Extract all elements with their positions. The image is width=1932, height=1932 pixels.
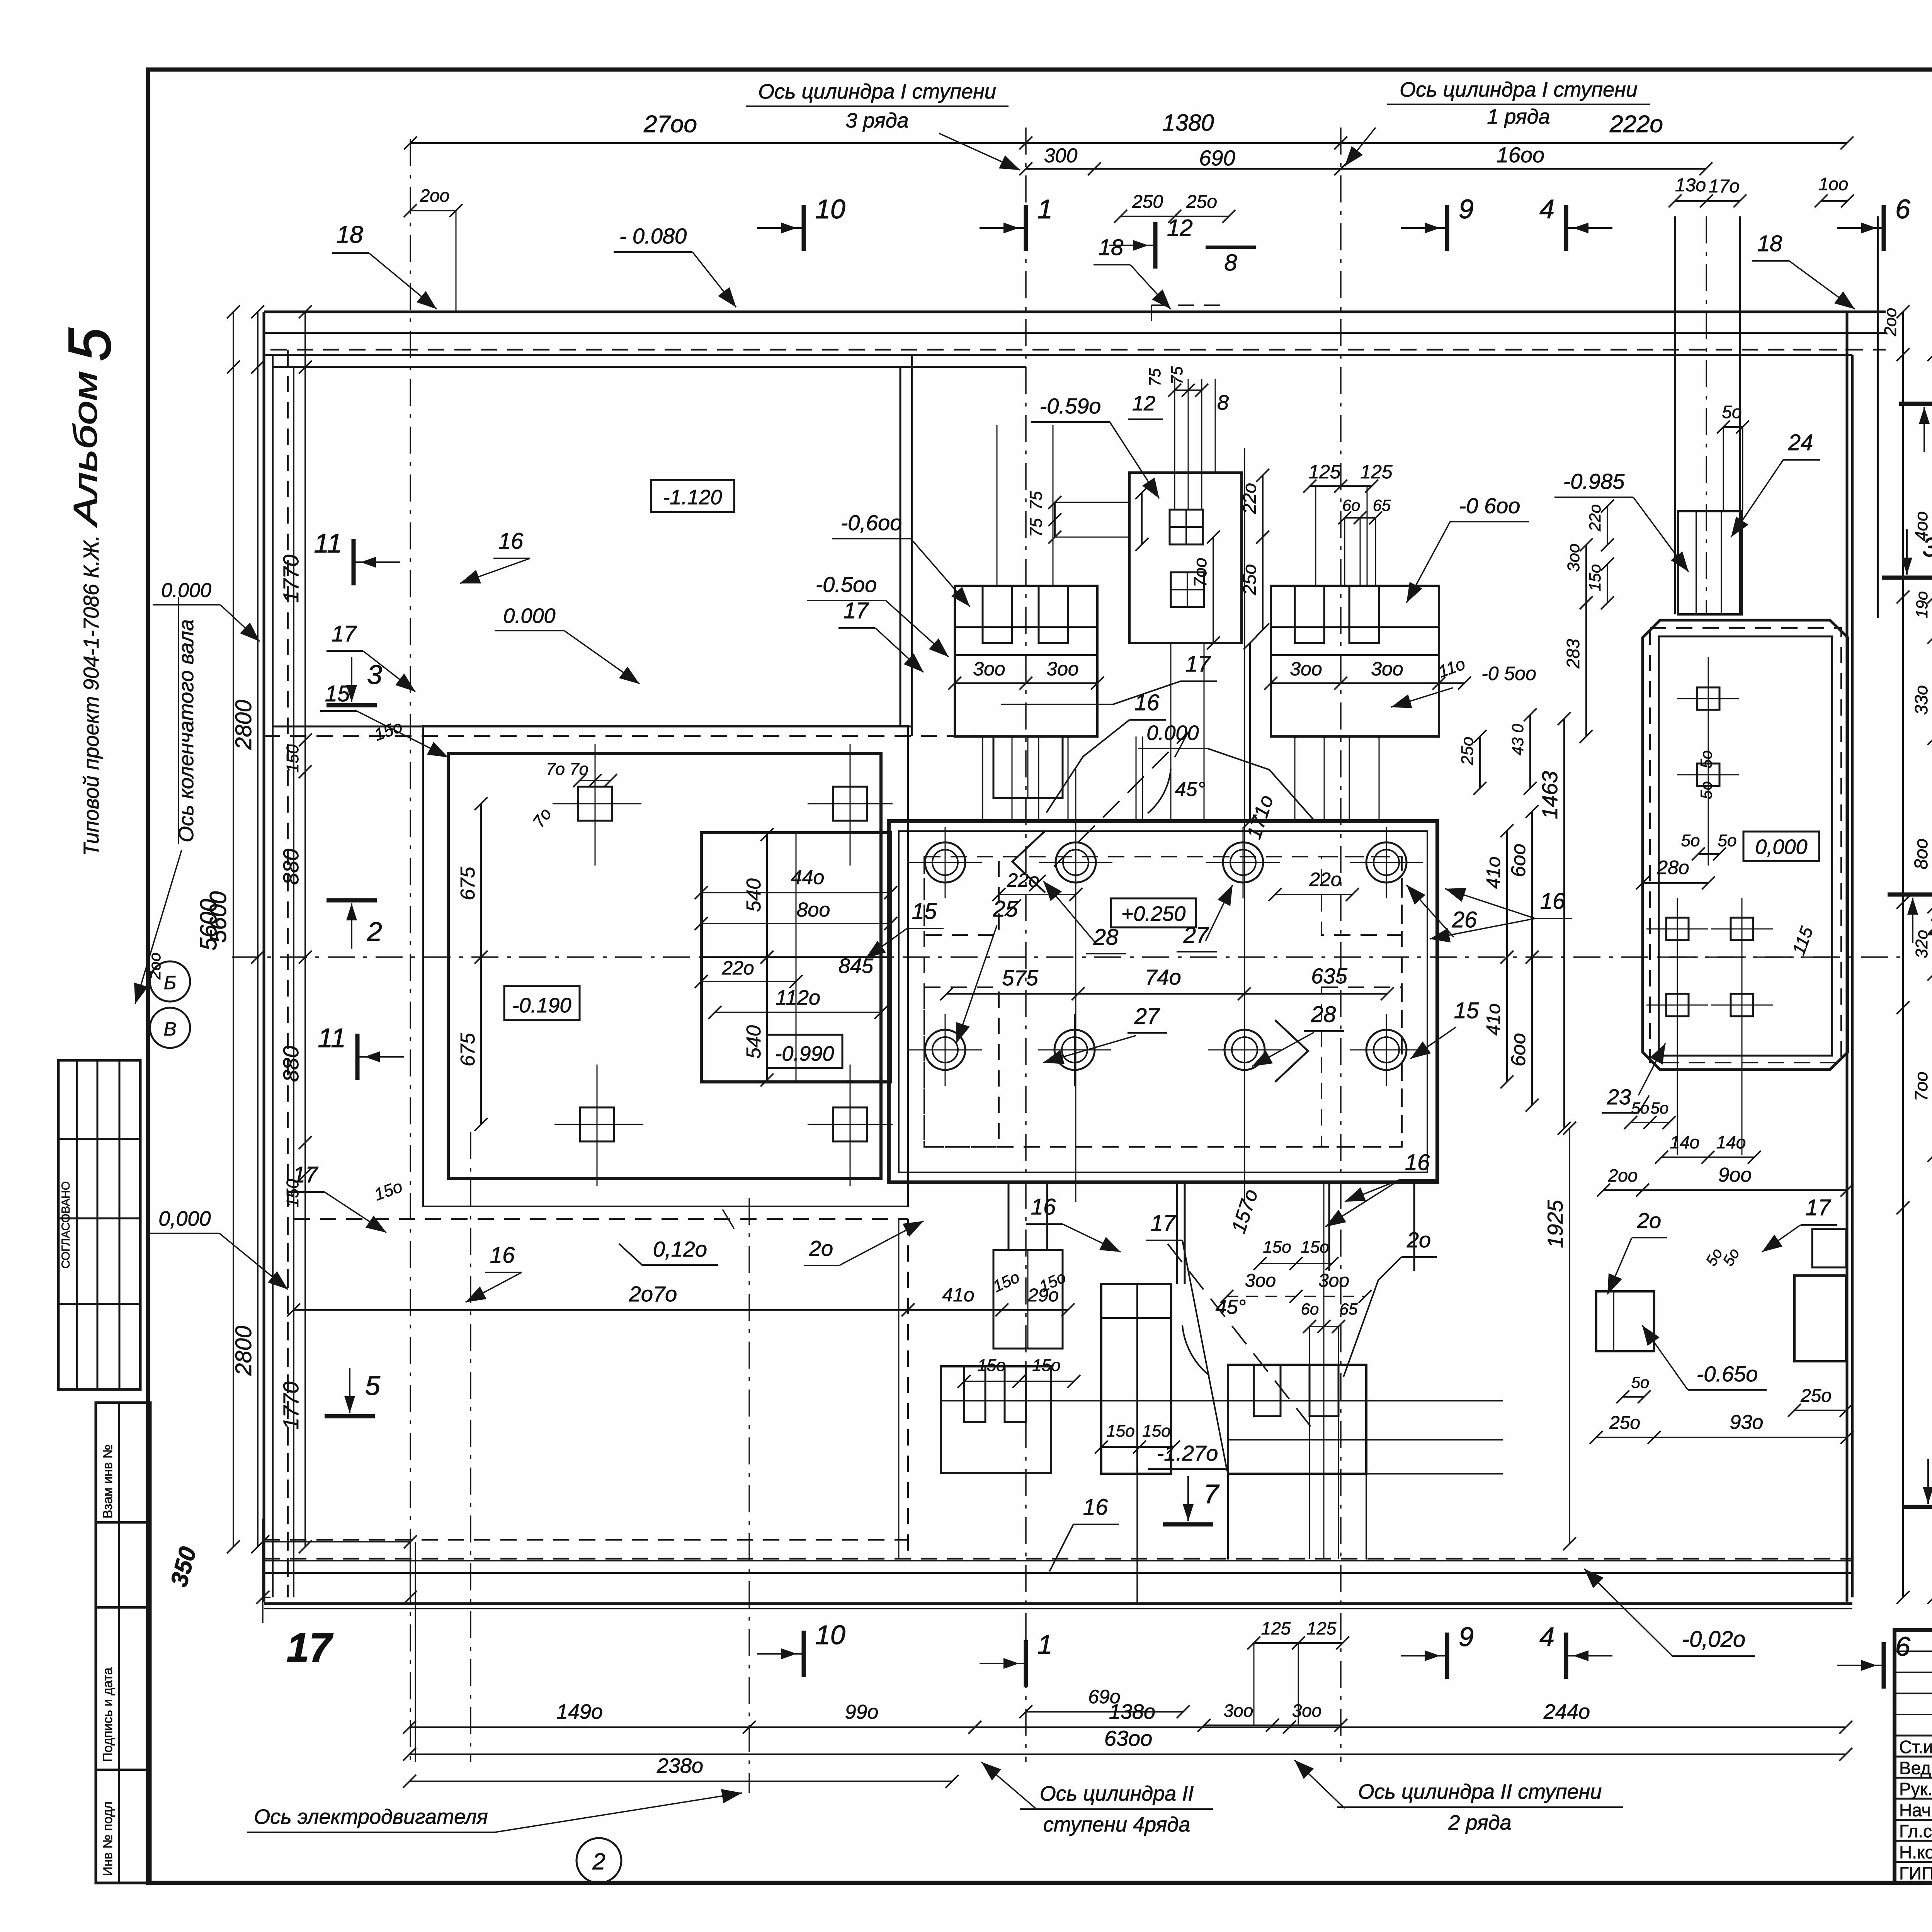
svg-text:Ось цилиндра II ступени: Ось цилиндра II ступени (1358, 1780, 1602, 1803)
left margin table Согласовано (58, 1060, 140, 1389)
svg-text:2о: 2о (1406, 1228, 1431, 1252)
bottom dim 690 (1026, 1711, 1183, 1713)
left margin stamp column (Взам инв № / Подпись и дата / Инв № подл) (96, 1403, 150, 1883)
svg-text:125: 125 (1307, 1618, 1337, 1638)
tall pedestal B (1101, 1284, 1171, 1474)
svg-text:-0.990: -0.990 (775, 1042, 834, 1065)
anchor square A1 (578, 787, 612, 821)
svg-text:15о: 15о (1142, 1422, 1170, 1440)
svg-text:12: 12 (1167, 215, 1193, 241)
slab diagonal 45 arrow upper (1005, 732, 1188, 916)
right top pillar verticals (1674, 216, 1676, 614)
svg-text:16: 16 (1083, 1495, 1108, 1520)
svg-text:15о: 15о (977, 1356, 1005, 1375)
svg-text:-0.65о: -0.65о (1697, 1362, 1758, 1386)
svg-text:25о: 25о (1458, 737, 1477, 765)
bottom-left room right dashed wall (907, 1219, 909, 1560)
svg-text:880: 880 (279, 1046, 303, 1082)
svg-text:28: 28 (1093, 925, 1119, 950)
dim 2070 410 290 (294, 1309, 908, 1311)
svg-text:16оо: 16оо (1497, 143, 1545, 167)
svg-text:10: 10 (815, 1620, 845, 1650)
svg-text:Ось цилиндра I ступени: Ось цилиндра I ступени (1400, 78, 1638, 101)
plan right wall (1846, 312, 1849, 1602)
anchor square A3 (580, 1107, 614, 1141)
svg-text:1463: 1463 (1537, 771, 1562, 819)
small pedestal rect below left comb (993, 736, 1063, 798)
center pedestal dims 75 75 12 8 (1175, 389, 1202, 391)
slab bolt circles row1 (925, 842, 965, 883)
svg-text:16: 16 (498, 529, 524, 554)
svg-text:2800: 2800 (231, 700, 256, 750)
svg-text:12: 12 (1132, 392, 1155, 415)
svg-text:+0.250: +0.250 (1121, 902, 1186, 925)
svg-text:16: 16 (1134, 690, 1160, 715)
svg-text:18: 18 (1757, 231, 1782, 256)
svg-text:22о: 22о (1007, 869, 1039, 891)
svg-text:0.000: 0.000 (1146, 721, 1199, 745)
svg-text:23: 23 (1607, 1085, 1631, 1109)
right comb legs down (1294, 736, 1296, 821)
bolt axes central slab (1075, 769, 1077, 1202)
svg-text:22о: 22о (1240, 483, 1260, 514)
wall stubs below slab left (1008, 1182, 1010, 1250)
svg-text:15о: 15о (1106, 1422, 1134, 1440)
svg-text:63оо: 63оо (1104, 1726, 1153, 1750)
svg-text:27оо: 27оо (643, 111, 697, 138)
axis line vertical x=1062 (410, 139, 411, 1762)
left dim chain 1770 150 880 880 150 1770 (304, 312, 306, 1547)
svg-text:Типовой проект 904-1-7086 К.: Типовой проект 904-1-7086 К.Ж. (79, 535, 103, 856)
svg-text:11: 11 (314, 528, 342, 558)
svg-text:17: 17 (287, 1625, 333, 1670)
dim 220 250 rotated right of center pedestal (1262, 475, 1264, 537)
svg-text:ГИП: ГИП (1899, 1863, 1932, 1883)
wall stubs below slab right (1328, 1182, 1330, 1271)
svg-text:25: 25 (993, 896, 1018, 922)
bottom-left wall step lines (293, 1219, 294, 1597)
svg-text:22о: 22о (721, 957, 754, 979)
svg-text:-1.120: -1.120 (663, 486, 722, 509)
axis crankshaft horizontal y=2477 (232, 956, 1905, 958)
svg-text:1оо: 1оо (1819, 174, 1849, 194)
svg-text:7оо: 7оо (1911, 1071, 1931, 1101)
svg-text:-0,02о: -0,02о (1682, 1627, 1745, 1652)
svg-text:9оо: 9оо (1718, 1164, 1752, 1186)
pillar dims 50 24 (1723, 426, 1743, 428)
svg-text:2800: 2800 (231, 1326, 256, 1376)
axis dash-dot x=1218 bottom-left (470, 1132, 471, 1762)
svg-text:3оо: 3оо (1318, 1270, 1349, 1291)
svg-text:65: 65 (1340, 1300, 1358, 1318)
svg-text:Подпись и дата: Подпись и дата (100, 1667, 115, 1762)
svg-text:6: 6 (1895, 194, 1910, 224)
svg-text:13о: 13о (1675, 175, 1706, 196)
svg-text:45°: 45° (1175, 778, 1206, 801)
svg-text:5о: 5о (1681, 831, 1700, 850)
svg-text:-0,6оо: -0,6оо (841, 510, 902, 535)
plan left wall (263, 312, 265, 1602)
svg-text:2: 2 (1928, 911, 1932, 941)
svg-text:5о: 5о (1631, 1099, 1650, 1117)
svg-text:2: 2 (592, 1849, 605, 1874)
svg-text:17: 17 (844, 598, 869, 623)
svg-text:25о: 25о (1609, 1413, 1640, 1433)
circled 2 bottom (577, 1838, 621, 1883)
left comb bolt verticals up and legs down (997, 425, 998, 586)
svg-text:0,000: 0,000 (1755, 835, 1807, 859)
svg-text:5: 5 (56, 328, 123, 361)
svg-text:1: 1 (1037, 194, 1053, 224)
left dim chain 2800 x2 (257, 312, 259, 1547)
bottom comb pedestal A (941, 1366, 1051, 1473)
svg-text:19о: 19о (1913, 591, 1931, 618)
right block bottom dims 50 50 140 140 900 200 (1631, 1122, 1669, 1123)
right dim chain x=4925 (1902, 312, 1904, 1597)
center pedestal pocket crosses (1185, 510, 1187, 544)
svg-text:575: 575 (1002, 966, 1038, 990)
svg-text:-0.985: -0.985 (1563, 469, 1625, 493)
right block inner (1659, 636, 1832, 1056)
dims 150 150 below B (1101, 1446, 1173, 1448)
svg-text:Б: Б (164, 972, 177, 993)
svg-text:2оо: 2оо (146, 952, 164, 980)
svg-text:15: 15 (1454, 998, 1479, 1023)
svg-text:43 0: 43 0 (1509, 724, 1527, 755)
bottom dim chain 1490 990 1380 2440 (410, 1726, 975, 1728)
svg-text:15: 15 (325, 681, 350, 706)
right block squares (1697, 687, 1719, 710)
svg-text:2о: 2о (809, 1236, 833, 1260)
room dims 675 540 70 70 440 800 220 845 1120 (480, 804, 482, 957)
svg-text:845: 845 (838, 954, 874, 978)
svg-text:28о: 28о (1656, 857, 1689, 878)
left dim chain 5600 (233, 312, 234, 1547)
svg-text:244о: 244о (1543, 1700, 1590, 1723)
svg-text:65: 65 (1373, 496, 1391, 514)
svg-text:17: 17 (1185, 651, 1211, 677)
top dim chain 300 690 1600 (1026, 168, 1341, 170)
svg-text:Н.контр: Н.контр (1899, 1842, 1932, 1862)
svg-text:5о: 5о (1631, 1373, 1650, 1391)
svg-text:22о: 22о (1309, 869, 1341, 890)
svg-text:2о7о: 2о7о (629, 1282, 677, 1306)
svg-text:Гл.спец: Гл.спец (1899, 1821, 1932, 1841)
svg-text:Инв № подл: Инв № подл (100, 1801, 115, 1876)
svg-text:250: 250 (1132, 192, 1163, 212)
right top pillar block -0.985 (1678, 511, 1742, 614)
dims 150 150 above comb A (964, 1381, 1074, 1382)
svg-text:18: 18 (337, 221, 363, 248)
svg-text:15: 15 (912, 899, 937, 924)
svg-text:690: 690 (1199, 146, 1235, 170)
svg-text:3: 3 (367, 660, 382, 690)
svg-text:112о: 112о (776, 986, 820, 1009)
svg-text:7: 7 (1204, 1479, 1220, 1509)
svg-text:635: 635 (1311, 964, 1347, 988)
bottom-left room dashed top 0.120 line (294, 1218, 908, 1220)
slab bolt circles row2 (925, 1030, 965, 1070)
svg-text:5: 5 (365, 1371, 381, 1401)
lower-left room outer (423, 726, 908, 1206)
slab dims 575 740 635 (947, 993, 1387, 995)
svg-text:3: 3 (1922, 532, 1932, 562)
svg-text:41о: 41о (942, 1284, 974, 1306)
svg-text:27: 27 (1134, 1004, 1160, 1029)
svg-text:1380: 1380 (1162, 110, 1214, 136)
svg-text:125: 125 (1360, 461, 1393, 483)
svg-text:16: 16 (490, 1243, 515, 1268)
svg-text:880: 880 (279, 849, 303, 885)
central slab inner line (899, 831, 1427, 1172)
svg-text:16: 16 (1031, 1194, 1056, 1219)
svg-text:Нач.отд: Нач.отд (1899, 1800, 1932, 1820)
svg-text:15о: 15о (1301, 1238, 1329, 1257)
svg-text:93о: 93о (1730, 1411, 1764, 1434)
svg-text:300: 300 (1044, 145, 1078, 167)
bottom small rect left (993, 1250, 1063, 1349)
top dim 200 top-left (410, 210, 456, 211)
svg-text:Ст.инж: Ст.инж (1899, 1737, 1932, 1757)
svg-text:222о: 222о (1609, 111, 1663, 138)
svg-text:675: 675 (457, 1032, 479, 1066)
svg-text:99о: 99о (845, 1701, 879, 1723)
right bottom step shapes (1812, 1229, 1846, 1267)
lower-left room inner bold (448, 753, 881, 1179)
svg-text:74о: 74о (1145, 965, 1181, 989)
svg-text:4: 4 (1539, 194, 1554, 224)
svg-text:-0.190: -0.190 (512, 994, 571, 1017)
svg-text:2: 2 (367, 917, 382, 947)
left comb pedestal (955, 586, 1097, 736)
top dim 130 170 100 (1675, 200, 1740, 202)
svg-text:1770: 1770 (279, 1381, 303, 1430)
axis line vertical 3-ряд x=2655 (1025, 128, 1027, 1762)
slab right dims 600 410 410 600 1463 1925 (1506, 831, 1508, 957)
bottom right dims 250 930 250 50 (1794, 1410, 1846, 1411)
bolt lines comb C (1309, 1327, 1310, 1559)
svg-text:3оо: 3оо (1564, 544, 1583, 572)
slab diamond marks (1012, 831, 1045, 893)
svg-text:Ось цилиндра I ступени: Ось цилиндра I ступени (758, 80, 996, 103)
svg-text:44о: 44о (791, 866, 825, 889)
right comb pedestal (1271, 586, 1439, 736)
svg-text:-0 5оо: -0 5оо (1481, 663, 1536, 684)
svg-text:ступени 4ряда: ступени 4ряда (1043, 1813, 1190, 1836)
svg-text:Рук.гр: Рук.гр (1899, 1779, 1932, 1799)
svg-text:-0 6оо: -0 6оо (1459, 493, 1520, 518)
svg-text:25о: 25о (1800, 1386, 1832, 1406)
svg-text:5о: 5о (1697, 781, 1715, 799)
svg-text:1925: 1925 (1543, 1200, 1567, 1248)
machine inner lines (701, 956, 891, 958)
svg-text:75: 75 (1168, 366, 1186, 384)
svg-text:5о: 5о (1651, 1099, 1669, 1117)
level box -0.990 (767, 1035, 842, 1068)
svg-text:0.000: 0.000 (503, 604, 555, 628)
svg-text:75: 75 (1146, 368, 1164, 386)
svg-text:540: 540 (743, 1025, 765, 1059)
svg-text:17: 17 (1806, 1195, 1832, 1220)
svg-text:14о: 14о (1716, 1132, 1746, 1152)
svg-text:Альбом: Альбом (67, 371, 104, 528)
svg-text:25о: 25о (1186, 192, 1217, 212)
central slab dashed inset (924, 857, 1402, 1147)
svg-text:Ось цилиндра II: Ось цилиндра II (1040, 1782, 1194, 1805)
slab corner bolt pads dashed (924, 857, 999, 935)
dims 60 65 comb C (1310, 1326, 1338, 1327)
svg-text:Вед.инж: Вед.инж (1899, 1758, 1932, 1778)
svg-text:540: 540 (743, 878, 765, 912)
svg-text:150: 150 (283, 744, 302, 773)
anchor square A2 (833, 787, 867, 821)
svg-text:2оо: 2оо (1881, 308, 1900, 337)
level box +0.250 (1111, 898, 1196, 927)
svg-text:138о: 138о (1109, 1700, 1155, 1723)
dims 300 300 above C (1227, 1296, 1365, 1297)
svg-text:0,12о: 0,12о (653, 1237, 707, 1261)
right comb dims 300 300 110 (1271, 682, 1464, 684)
svg-text:2о: 2о (1637, 1208, 1661, 1233)
upper-left room walls (273, 366, 1026, 368)
svg-text:5600: 5600 (205, 891, 231, 943)
svg-text:75: 75 (1027, 518, 1046, 537)
center tall pedestal (1129, 473, 1242, 643)
long horizontal line y=3625 (941, 1400, 1503, 1401)
svg-text:2 ряда: 2 ряда (1448, 1811, 1511, 1834)
plan bottom wall (264, 1558, 1852, 1560)
svg-text:3оо: 3оо (1245, 1270, 1276, 1291)
bottom comb pedestal C (1228, 1365, 1366, 1474)
svg-text:238о: 238о (656, 1754, 703, 1777)
svg-text:-0.5оо: -0.5оо (816, 572, 877, 597)
svg-text:6оо: 6оо (1507, 1033, 1530, 1066)
svg-text:6о: 6о (1342, 496, 1361, 514)
thin chain vertical x=1075 (415, 1542, 416, 1762)
svg-text:16: 16 (1540, 889, 1565, 914)
dims 150 150 above C (1260, 1263, 1332, 1264)
svg-text:125: 125 (1308, 461, 1341, 483)
dim 700 rotated (1213, 537, 1214, 643)
svg-text:283: 283 (1563, 639, 1583, 669)
svg-text:3оо: 3оо (973, 658, 1005, 680)
svg-text:22о: 22о (1586, 504, 1604, 532)
svg-text:125: 125 (1261, 1618, 1291, 1638)
machine foundation rect (701, 833, 891, 1082)
slab diagonal 45 arrow lower (1168, 1244, 1311, 1427)
svg-text:28: 28 (1311, 1002, 1336, 1027)
right block outer with bevel (1643, 620, 1848, 1070)
axis line vertical 1-ряд x=3470 (1340, 128, 1342, 1762)
svg-text:-1.27о: -1.27о (1157, 1441, 1218, 1465)
svg-text:15о: 15о (1032, 1356, 1060, 1375)
plan outer wall top band (264, 311, 1886, 313)
svg-text:0.000: 0.000 (161, 579, 211, 602)
svg-text:6оо: 6оо (1507, 844, 1530, 877)
svg-text:11: 11 (318, 1023, 346, 1053)
svg-text:1: 1 (1037, 1629, 1053, 1660)
svg-text:- 0.080: - 0.080 (619, 224, 687, 248)
svg-text:3оо: 3оо (1371, 658, 1403, 680)
svg-text:4: 4 (1539, 1622, 1554, 1652)
svg-text:3оо: 3оо (1290, 658, 1322, 680)
svg-text:7оо: 7оо (1190, 558, 1210, 587)
title block outer (1895, 1630, 1932, 1883)
svg-text:6: 6 (1895, 1631, 1910, 1662)
svg-text:8оо: 8оо (797, 899, 830, 921)
svg-text:25о: 25о (1240, 564, 1260, 595)
dims right comb column 250 43 283 150 (1479, 736, 1481, 788)
right block dashed (1650, 628, 1841, 1063)
svg-text:41о: 41о (1483, 1003, 1504, 1036)
level box -1.120 (651, 480, 734, 512)
axis motor x=1939 (748, 1198, 750, 1793)
right section marks (1899, 402, 1932, 406)
bottom mini dims 125 125 300 300 (1254, 1642, 1343, 1644)
level box -0.190 (504, 986, 580, 1020)
right block vertical bolt lines (1708, 657, 1709, 866)
svg-text:СОГЛАСОВАНО: СОГЛАСОВАНО (60, 1181, 72, 1269)
anchor square A4 (833, 1107, 867, 1141)
svg-text:33о: 33о (1911, 685, 1931, 715)
svg-text:14о: 14о (1670, 1132, 1700, 1152)
svg-text:1770: 1770 (279, 554, 303, 603)
svg-text:3оо: 3оо (1292, 1701, 1322, 1721)
node circles Б and В (150, 961, 190, 1002)
svg-text:3 ряда: 3 ряда (845, 109, 908, 132)
svg-text:17: 17 (1151, 1211, 1177, 1236)
svg-text:149о: 149о (556, 1700, 603, 1723)
svg-text:Взам инв №: Взам инв № (100, 1444, 115, 1519)
svg-text:8оо: 8оо (1911, 838, 1932, 869)
bottom dim 2380 (410, 1781, 952, 1782)
svg-text:15о: 15о (1263, 1238, 1291, 1257)
svg-text:75: 75 (1027, 491, 1046, 510)
svg-text:26: 26 (1452, 907, 1477, 932)
bottom right pedestal with -0.650 (1596, 1291, 1654, 1351)
vertical extensions below combs (1227, 1474, 1229, 1560)
right block dims 280 50 50 (1643, 882, 1708, 884)
section mark 7 bottom middle (1163, 1522, 1213, 1527)
slab dims 220 220 (999, 894, 1076, 895)
bottom-left room dashed inner bottom (264, 1539, 908, 1541)
dim 1710 vertical line (1249, 643, 1251, 821)
svg-text:675: 675 (457, 866, 479, 900)
svg-text:5о: 5о (1722, 402, 1742, 422)
stub pair right of left comb (1136, 736, 1137, 821)
svg-text:18: 18 (1099, 235, 1124, 260)
svg-text:-0.59о: -0.59о (1040, 394, 1101, 418)
svg-text:2оо: 2оо (1608, 1165, 1638, 1185)
svg-text:0,000: 0,000 (158, 1207, 211, 1230)
svg-text:Ось электродвигателя: Ось электродвигателя (254, 1805, 488, 1828)
svg-text:17: 17 (293, 1162, 319, 1187)
svg-text:6о: 6о (1301, 1300, 1319, 1318)
bottom section marks row (802, 1631, 806, 1677)
svg-text:17о: 17о (1709, 176, 1740, 197)
svg-text:В: В (163, 1018, 176, 1040)
central slab outer bold (889, 821, 1437, 1182)
svg-text:1 ряда: 1 ряда (1487, 105, 1550, 128)
svg-text:41о: 41о (1483, 857, 1504, 889)
svg-text:17: 17 (332, 621, 357, 646)
wall stubs below slab middle (1176, 1182, 1178, 1284)
svg-text:8: 8 (1224, 250, 1237, 276)
svg-text:9: 9 (1459, 1622, 1474, 1652)
svg-text:24: 24 (1788, 430, 1813, 455)
svg-text:27: 27 (1183, 923, 1209, 948)
right comb bolt verticals and dims 125 125 60 65 (1315, 487, 1316, 586)
